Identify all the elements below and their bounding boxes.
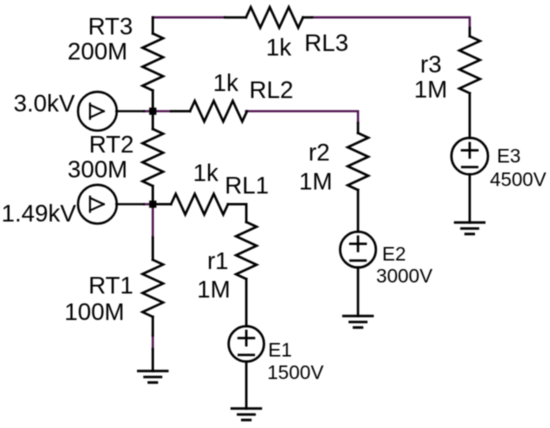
svg-text:1M: 1M (299, 169, 332, 196)
ground below E2 (344, 316, 373, 328)
ground below E3 (455, 223, 484, 235)
svg-text:300M: 300M (68, 156, 128, 183)
svg-text:1M: 1M (197, 277, 230, 304)
svg-text:RL2: RL2 (249, 77, 293, 104)
svg-text:3.0kV: 3.0kV (14, 91, 75, 118)
svg-text:RT2: RT2 (89, 132, 134, 159)
wire probe V1 to node B (144, 110, 153, 112)
ground below E1 (232, 409, 261, 421)
resistor r3 (459, 28, 480, 138)
svg-text:r2: r2 (309, 140, 330, 167)
svg-text:1k: 1k (213, 70, 239, 97)
voltage source E1 (229, 326, 264, 408)
svg-text:r3: r3 (420, 51, 441, 78)
svg-text:RL3: RL3 (304, 30, 348, 57)
svg-text:1M: 1M (414, 77, 447, 104)
svg-text:1.49kV: 1.49kV (1, 201, 76, 228)
svg-text:RT3: RT3 (88, 13, 133, 40)
resistor RT2 (143, 111, 164, 204)
svg-text:3000V: 3000V (376, 265, 432, 287)
voltage probe V1 3.0kV (78, 92, 144, 131)
svg-text:E1: E1 (268, 340, 292, 362)
node B junction dot (149, 108, 156, 115)
wire node A: RL2 output to r2 (246, 111, 358, 123)
wire node C down to RT1 (152, 204, 154, 237)
resistor RT1 (143, 238, 164, 336)
resistor r1 (236, 222, 257, 326)
wire probe V2 to node C (144, 203, 153, 205)
svg-text:RL1: RL1 (225, 173, 269, 200)
svg-text:1k: 1k (193, 160, 219, 187)
voltage probe V2 1.49kV (78, 185, 144, 224)
resistor RT3 (143, 17, 164, 111)
voltage source E2 (340, 232, 376, 316)
resistor RL3 (225, 7, 312, 28)
wire node B: junction to RL2 lead (153, 110, 171, 112)
svg-text:200M: 200M (68, 38, 128, 65)
svg-text:E3: E3 (497, 145, 521, 167)
svg-text:E2: E2 (382, 243, 406, 265)
svg-text:r1: r1 (207, 248, 228, 275)
resistor r2 (348, 123, 369, 232)
resistor RL2 (171, 101, 247, 122)
svg-text:4500V: 4500V (490, 169, 546, 191)
wire top node: RT3 to RL3 (153, 16, 225, 18)
svg-text:100M: 100M (64, 299, 124, 326)
svg-text:1500V: 1500V (267, 362, 323, 384)
ground below RT1 (138, 349, 167, 383)
svg-text:1k: 1k (266, 35, 292, 62)
wire top node: RL3 to r3 corner (312, 17, 470, 28)
svg-text:RT1: RT1 (89, 272, 134, 299)
node C junction dot (149, 201, 156, 208)
wire RT1 to ground (152, 335, 154, 350)
voltage source E3 (451, 138, 488, 223)
resistor RL1 (153, 194, 247, 222)
